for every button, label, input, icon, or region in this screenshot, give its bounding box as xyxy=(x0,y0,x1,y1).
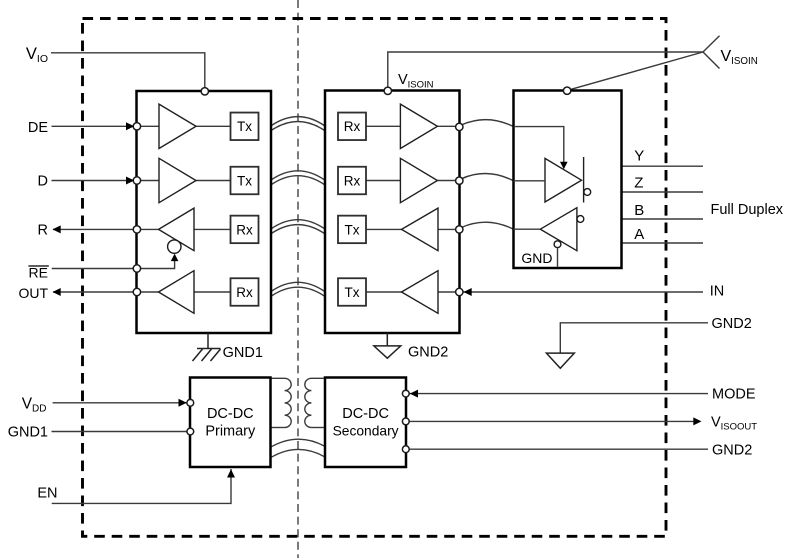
svg-text:D: D xyxy=(38,173,48,189)
svg-text:DE: DE xyxy=(28,120,48,136)
svg-text:GND1: GND1 xyxy=(8,425,48,441)
svg-text:Y: Y xyxy=(634,148,644,165)
svg-text:OUT: OUT xyxy=(18,285,48,301)
svg-text:IN: IN xyxy=(710,283,725,299)
svg-text:Tx: Tx xyxy=(345,222,360,237)
svg-text:Rx: Rx xyxy=(344,119,361,134)
svg-text:Tx: Tx xyxy=(237,119,252,134)
svg-text:GND1: GND1 xyxy=(223,345,263,361)
svg-text:Full Duplex: Full Duplex xyxy=(711,202,784,218)
svg-text:R: R xyxy=(38,222,48,238)
svg-text:GND: GND xyxy=(521,250,552,266)
svg-text:Secondary: Secondary xyxy=(333,423,399,438)
svg-text:DC-DC: DC-DC xyxy=(207,406,254,422)
svg-text:Rx: Rx xyxy=(236,222,253,237)
svg-text:MODE: MODE xyxy=(712,387,756,403)
svg-text:GND2: GND2 xyxy=(712,316,752,332)
svg-text:B: B xyxy=(634,202,644,219)
svg-text:Z: Z xyxy=(634,175,643,192)
svg-text:GND2: GND2 xyxy=(408,344,448,360)
svg-text:Primary: Primary xyxy=(205,423,256,439)
svg-text:Tx: Tx xyxy=(345,285,360,300)
svg-text:RE: RE xyxy=(29,264,48,280)
svg-text:DC-DC: DC-DC xyxy=(342,406,389,422)
svg-text:Tx: Tx xyxy=(237,173,252,188)
svg-text:Rx: Rx xyxy=(236,285,253,300)
svg-text:EN: EN xyxy=(37,486,57,502)
svg-text:Rx: Rx xyxy=(344,173,361,188)
svg-text:GND2: GND2 xyxy=(712,442,752,458)
svg-text:A: A xyxy=(634,226,644,243)
